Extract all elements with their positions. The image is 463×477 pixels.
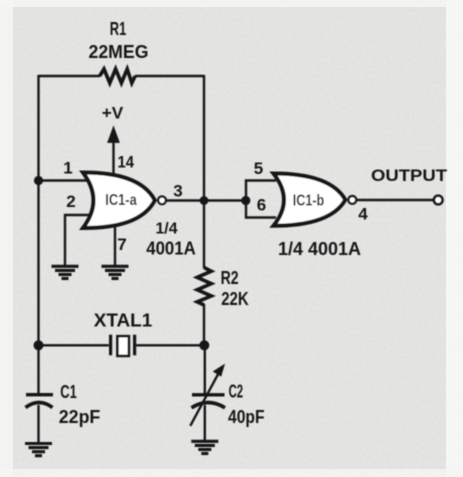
wire right rail lower [203,304,206,394]
node junction output / right rail [200,196,209,205]
svg-text:1/4: 1/4 [156,221,178,238]
ground at C2 [191,441,218,453]
svg-text:22MEG: 22MEG [89,42,149,62]
supply +V arrow [108,127,120,143]
svg-text:4001A: 4001A [146,239,196,259]
output terminal [434,196,443,205]
wire pin1 input [39,179,91,181]
wire IC1-a output to IC1-b [163,199,246,201]
ground at pin 2 [52,266,79,278]
svg-text:+V: +V [102,104,124,123]
svg-text:R2: R2 [221,268,239,288]
svg-text:C1: C1 [60,382,77,402]
svg-text:1: 1 [63,159,72,178]
wire IC1-b input bus [246,181,276,218]
svg-text:R1: R1 [110,19,127,39]
ground at pin 7 [102,266,129,278]
svg-text:XTAL1: XTAL1 [94,310,153,330]
wire pin2 input [65,215,92,265]
wire C1 to ground [37,405,39,443]
svg-text:1/4 4001A: 1/4 4001A [278,239,361,259]
svg-text:C2: C2 [229,381,244,401]
svg-text:6: 6 [257,196,266,215]
svg-text:40pF: 40pF [228,407,265,427]
svg-text:22pF: 22pF [59,407,101,427]
svg-text:7: 7 [117,235,126,254]
op-amp gate IC1-a (NOR) [83,173,166,229]
svg-text:IC1-a: IC1-a [105,192,137,209]
wire pin14 supply [112,138,114,175]
wire left rail [37,75,39,394]
wire xtal left [39,344,109,346]
op-amp gate IC1-b (NOR) [274,174,357,226]
resistor R2 [197,268,211,306]
bubble pin 3 [158,196,166,204]
wire xtal right [136,344,204,346]
svg-text:14: 14 [118,153,135,172]
svg-text:5: 5 [254,159,263,178]
svg-text:IC1-b: IC1-b [293,192,325,209]
ground at C1 [25,444,52,456]
svg-text:4: 4 [358,205,368,224]
svg-text:2: 2 [66,192,75,211]
wire pin7 ground [114,225,116,265]
crystal XTAL1 [111,335,135,356]
svg-text:OUTPUT: OUTPUT [371,167,447,185]
wire top feedback right segment [135,75,204,77]
wire right rail upper [203,75,205,268]
node junction xtal left [34,340,44,350]
wire top feedback left segment [39,75,101,77]
svg-text:22K: 22K [221,289,249,309]
bubble pin 4 [348,196,356,204]
capacitor C1 [26,395,54,408]
capacitor C2 (variable) [190,364,225,426]
wire C2 to ground [204,405,206,441]
node junction IC1-b input bus [241,196,250,205]
wire output to terminal [355,199,434,201]
svg-text:3: 3 [173,182,182,201]
resistor R1 [100,69,135,83]
node junction xtal right [199,340,209,350]
node junction pin1 / left rail [34,176,43,185]
